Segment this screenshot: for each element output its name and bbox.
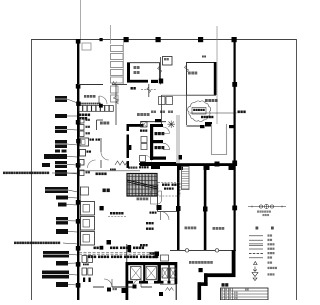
wall h y84b [112, 84, 127, 86]
wall col y103 [76, 102, 80, 106]
right wall column 3 [232, 206, 237, 211]
left wall column 3 [76, 120, 81, 125]
top wall column 2 [124, 37, 129, 42]
west tag 3 [55, 126, 78, 133]
center thick wall vert [127, 124, 130, 168]
left wall column 2 [76, 84, 81, 89]
sheet border left [31, 39, 33, 300]
machine room left wall [127, 63, 130, 83]
escalator label [137, 198, 149, 201]
activity room right wall [214, 62, 217, 95]
core C bar mid [150, 140, 163, 143]
bottom door arc 1 [104, 279, 112, 287]
wall y125 right seg [229, 125, 234, 128]
wall x160 upper [160, 57, 162, 85]
wall h y95 mid [162, 94, 187, 96]
exchange room left wall [115, 85, 117, 126]
wall x101 [100, 138, 102, 168]
sheet border top [31, 39, 297, 41]
wall h y84 [78, 84, 103, 86]
bar label [100, 122, 109, 125]
scale label 1 [257, 211, 271, 213]
west tag 12 [56, 229, 78, 234]
fcu row top labels [80, 103, 101, 105]
QX label [202, 56, 206, 58]
long annotation 2 [14, 242, 78, 245]
column x161 [159, 79, 163, 84]
door arc y160 [88, 160, 96, 168]
se wall h1 [204, 273, 236, 277]
sw tag 2 [146, 228, 154, 230]
service dashed rect [158, 183, 180, 197]
left main wall [77, 39, 79, 300]
bottom wall seg1 [93, 286, 104, 288]
test room wall 2 [204, 166, 207, 250]
tag P0800B [79, 114, 90, 120]
service tag small [150, 212, 157, 214]
west room box 1 [81, 202, 95, 216]
legend row 5 [249, 252, 274, 254]
west tag 14 [56, 261, 78, 266]
west tag 13 [43, 251, 78, 258]
test room col 1 [176, 206, 181, 211]
machine room label [134, 66, 140, 74]
bottom wall seg2 [112, 286, 133, 288]
service desk tags [162, 184, 179, 190]
exchange room label [137, 113, 150, 116]
ann sq mid [107, 240, 112, 245]
stair flight lower [111, 86, 119, 102]
bank divider 3 [168, 262, 169, 284]
core small xbox [141, 122, 148, 128]
toilet tiny pair [83, 278, 91, 283]
west tag 2 [55, 114, 78, 118]
west tag 1 [55, 96, 78, 103]
west tag extra [42, 163, 50, 167]
cloud tag below [201, 116, 213, 127]
revision cloud [188, 101, 211, 122]
fixture tag 2 [87, 151, 92, 153]
activity room break [185, 65, 189, 73]
west tag 6 [55, 161, 78, 168]
cloud inner label [193, 109, 205, 111]
legend row 6 [249, 256, 272, 258]
shaft labels [151, 111, 173, 114]
core star symbol [168, 121, 176, 129]
west room box 3 [81, 232, 95, 246]
right wall column 2 [232, 161, 237, 167]
notes title [222, 283, 229, 286]
core left box 2 [141, 144, 147, 150]
corridor tag [96, 173, 107, 176]
ann row1 tags [110, 247, 144, 250]
bank car 4 [170, 268, 176, 278]
left wall column 5 [76, 200, 81, 205]
core left tags low [139, 163, 149, 168]
corridor wall x177 double [177, 115, 179, 163]
door rect top-left [82, 43, 91, 50]
core cell tag 1 [155, 132, 165, 135]
column x155 [155, 252, 160, 257]
vent shaft box [163, 57, 173, 66]
shaft box 2 [166, 97, 173, 105]
ladder block [182, 167, 190, 190]
service desk outline [151, 191, 162, 204]
core door arc 2 [163, 143, 170, 150]
column y207 [100, 206, 104, 210]
activity room label [188, 72, 197, 75]
core top wall [141, 121, 166, 123]
exit wall x176 [175, 284, 177, 300]
left wall column 6 [76, 219, 81, 224]
left wall column 1 [76, 39, 81, 44]
core C bar top [150, 124, 163, 127]
column x128 [128, 245, 132, 252]
core bottom bar [151, 166, 160, 169]
wall fixture 1 [80, 118, 90, 124]
bar wall [97, 120, 104, 130]
wall column x179 bot [179, 166, 184, 171]
test room col 2 [203, 207, 208, 212]
machine room bottom wall [127, 80, 148, 83]
legend row 3 [249, 243, 274, 245]
core top block [155, 119, 161, 122]
stair side wall [123, 40, 125, 84]
leader to N-X [190, 112, 237, 114]
left wall column 9 [76, 283, 81, 288]
core left box 1 [141, 137, 147, 143]
bank bottom gaps [133, 281, 175, 284]
activity room top wall [187, 62, 215, 64]
legend header [256, 227, 274, 230]
bank divider 2 [158, 262, 161, 284]
west tag pair y150 [55, 150, 67, 153]
wall y163 column c [229, 166, 234, 171]
bottom wall col [133, 285, 137, 289]
bank left wall down [126, 284, 129, 301]
wall fixture 3 [80, 131, 90, 137]
wall y125 left seg [187, 125, 205, 128]
test room wall 1 [177, 166, 180, 250]
legend row 4 [249, 248, 274, 250]
core cell tag 2 [155, 146, 165, 149]
notes table [221, 288, 269, 300]
vent shaft label [164, 58, 169, 60]
test room bottom wall [170, 249, 236, 251]
core C bar bot [150, 157, 166, 160]
west room divider [80, 187, 82, 247]
top wall column 4 [198, 37, 203, 42]
legend sym row 2 [253, 267, 277, 272]
escalator top tag [128, 167, 137, 169]
legend sym row 1 [254, 262, 273, 265]
wall col y140 [76, 139, 80, 143]
bank right room box [161, 255, 169, 261]
core bottom thick [140, 162, 176, 165]
escalator hatched [127, 174, 157, 197]
main wall y163 [140, 163, 236, 166]
core C wall vert [150, 124, 153, 160]
exit black sq [159, 292, 163, 296]
shaft box 1 [159, 97, 166, 105]
bank divider 1 [143, 262, 145, 284]
toilet marks [83, 264, 89, 266]
fixture box 3 [80, 160, 85, 166]
center wall block y145 [128, 145, 131, 150]
lobby dashed tag [108, 212, 126, 217]
light shaft [212, 124, 227, 155]
bank car 3 [162, 268, 168, 278]
service wall y211 [158, 211, 178, 213]
bottom wall seg3 [141, 286, 152, 288]
west room box small [81, 187, 89, 195]
wall y163 column [215, 162, 220, 167]
se wall h2 [198, 282, 208, 286]
service black sq [157, 205, 162, 210]
bank car 2 [146, 267, 157, 280]
west tag 8 [45, 187, 78, 193]
grid line B [110, 25, 112, 44]
cloud inner box [192, 108, 206, 115]
se wall v3 [198, 282, 202, 300]
long annotation 1 [3, 172, 78, 175]
grid line C [216, 26, 218, 124]
fire room column [199, 268, 203, 272]
right wall column 1 [232, 82, 237, 87]
left wall column 4 [76, 163, 81, 168]
door circle 1 [185, 249, 188, 252]
west room box 2 [81, 217, 95, 231]
wall block x179 [179, 155, 183, 160]
sheet border right [296, 39, 298, 300]
top wall column 5 [232, 37, 237, 42]
rest label [131, 87, 136, 90]
west tag 11 [56, 217, 78, 225]
wall x149 [147, 84, 151, 97]
stair flight upper [111, 46, 124, 84]
se wall v1 [232, 250, 236, 277]
wall x162 lower [161, 95, 163, 125]
right main wall [234, 39, 236, 251]
rest leader dashed [141, 89, 157, 91]
se wall v2 [204, 273, 208, 286]
bank outline [126, 262, 178, 284]
machine room top wall [127, 62, 160, 64]
toilet pair 2 [82, 268, 92, 275]
wall y163 column b [204, 166, 210, 171]
west tag 16 [56, 282, 78, 287]
fcu row top [79, 106, 114, 112]
door zigzag y84 [112, 82, 117, 85]
bank bottom line [160, 283, 176, 285]
door circle 2 [215, 249, 218, 252]
ann row2 tags [88, 256, 158, 259]
grid line A [80, 0, 82, 39]
wall fixture 2 [80, 125, 90, 131]
top wall column 1 [100, 38, 103, 41]
sw tag 1 [146, 222, 154, 224]
service door arc [161, 212, 170, 221]
machine room right wall [159, 63, 161, 80]
fire room label [189, 261, 213, 264]
ann row1 tag a [94, 247, 99, 250]
scale symbol [248, 204, 286, 208]
column ann1 [100, 246, 104, 250]
west tag 5 [44, 154, 78, 159]
door arc restroom [99, 96, 107, 104]
corridor marks [110, 169, 116, 171]
west tag 15 [42, 271, 78, 279]
rest room label [84, 95, 95, 98]
left wall column 7 [76, 246, 81, 251]
toilet pair 1 [82, 256, 92, 263]
door arc x101 [101, 152, 109, 160]
machine room bottom block [151, 80, 158, 83]
machine room break symbol [158, 66, 162, 74]
west tag 9 [56, 196, 78, 200]
core left tag [140, 130, 147, 132]
west tag 4 [55, 140, 78, 148]
fixture box 1 [80, 138, 89, 146]
lobby label [103, 189, 110, 193]
fixture box 2 [80, 150, 86, 157]
bottom door arc 2 [133, 279, 141, 287]
bottom col x107 [107, 288, 117, 292]
corridor zigzag [115, 161, 128, 165]
west tag 7 [55, 170, 78, 176]
activity room left wall [186, 62, 188, 95]
top wall column 3 [156, 37, 161, 42]
service wall x157 [157, 185, 159, 212]
core left fixture [140, 156, 152, 162]
corridor dash line [79, 253, 160, 255]
left wall column 8 [76, 262, 81, 267]
test room label 1 [185, 227, 197, 230]
corridor wall x127 [126, 244, 128, 262]
west tag 10 [58, 203, 78, 207]
bottom col x122 [122, 288, 127, 293]
exchange room door break [114, 96, 119, 104]
exit zigzag [166, 288, 174, 291]
test room label 2 [213, 227, 225, 230]
core door arc 1 [163, 127, 170, 134]
fixture tag row [90, 139, 101, 141]
scale label 2 [263, 214, 270, 216]
legend row 1 [249, 234, 272, 236]
column x100 y104 [99, 104, 103, 108]
N-X label [238, 111, 246, 114]
legend sym row 3 [252, 273, 274, 281]
ann tags y244 r [140, 244, 148, 246]
wall fixture 4 [80, 170, 90, 176]
activity room bottom wall [187, 94, 217, 96]
elev tags above [150, 252, 158, 258]
center thick wall horiz [127, 124, 144, 127]
wall x186 lower [186, 95, 188, 125]
corridor line [79, 170, 140, 172]
bank car 1 [131, 267, 142, 280]
legend row 2 [249, 239, 272, 241]
city bar room label [205, 99, 218, 102]
